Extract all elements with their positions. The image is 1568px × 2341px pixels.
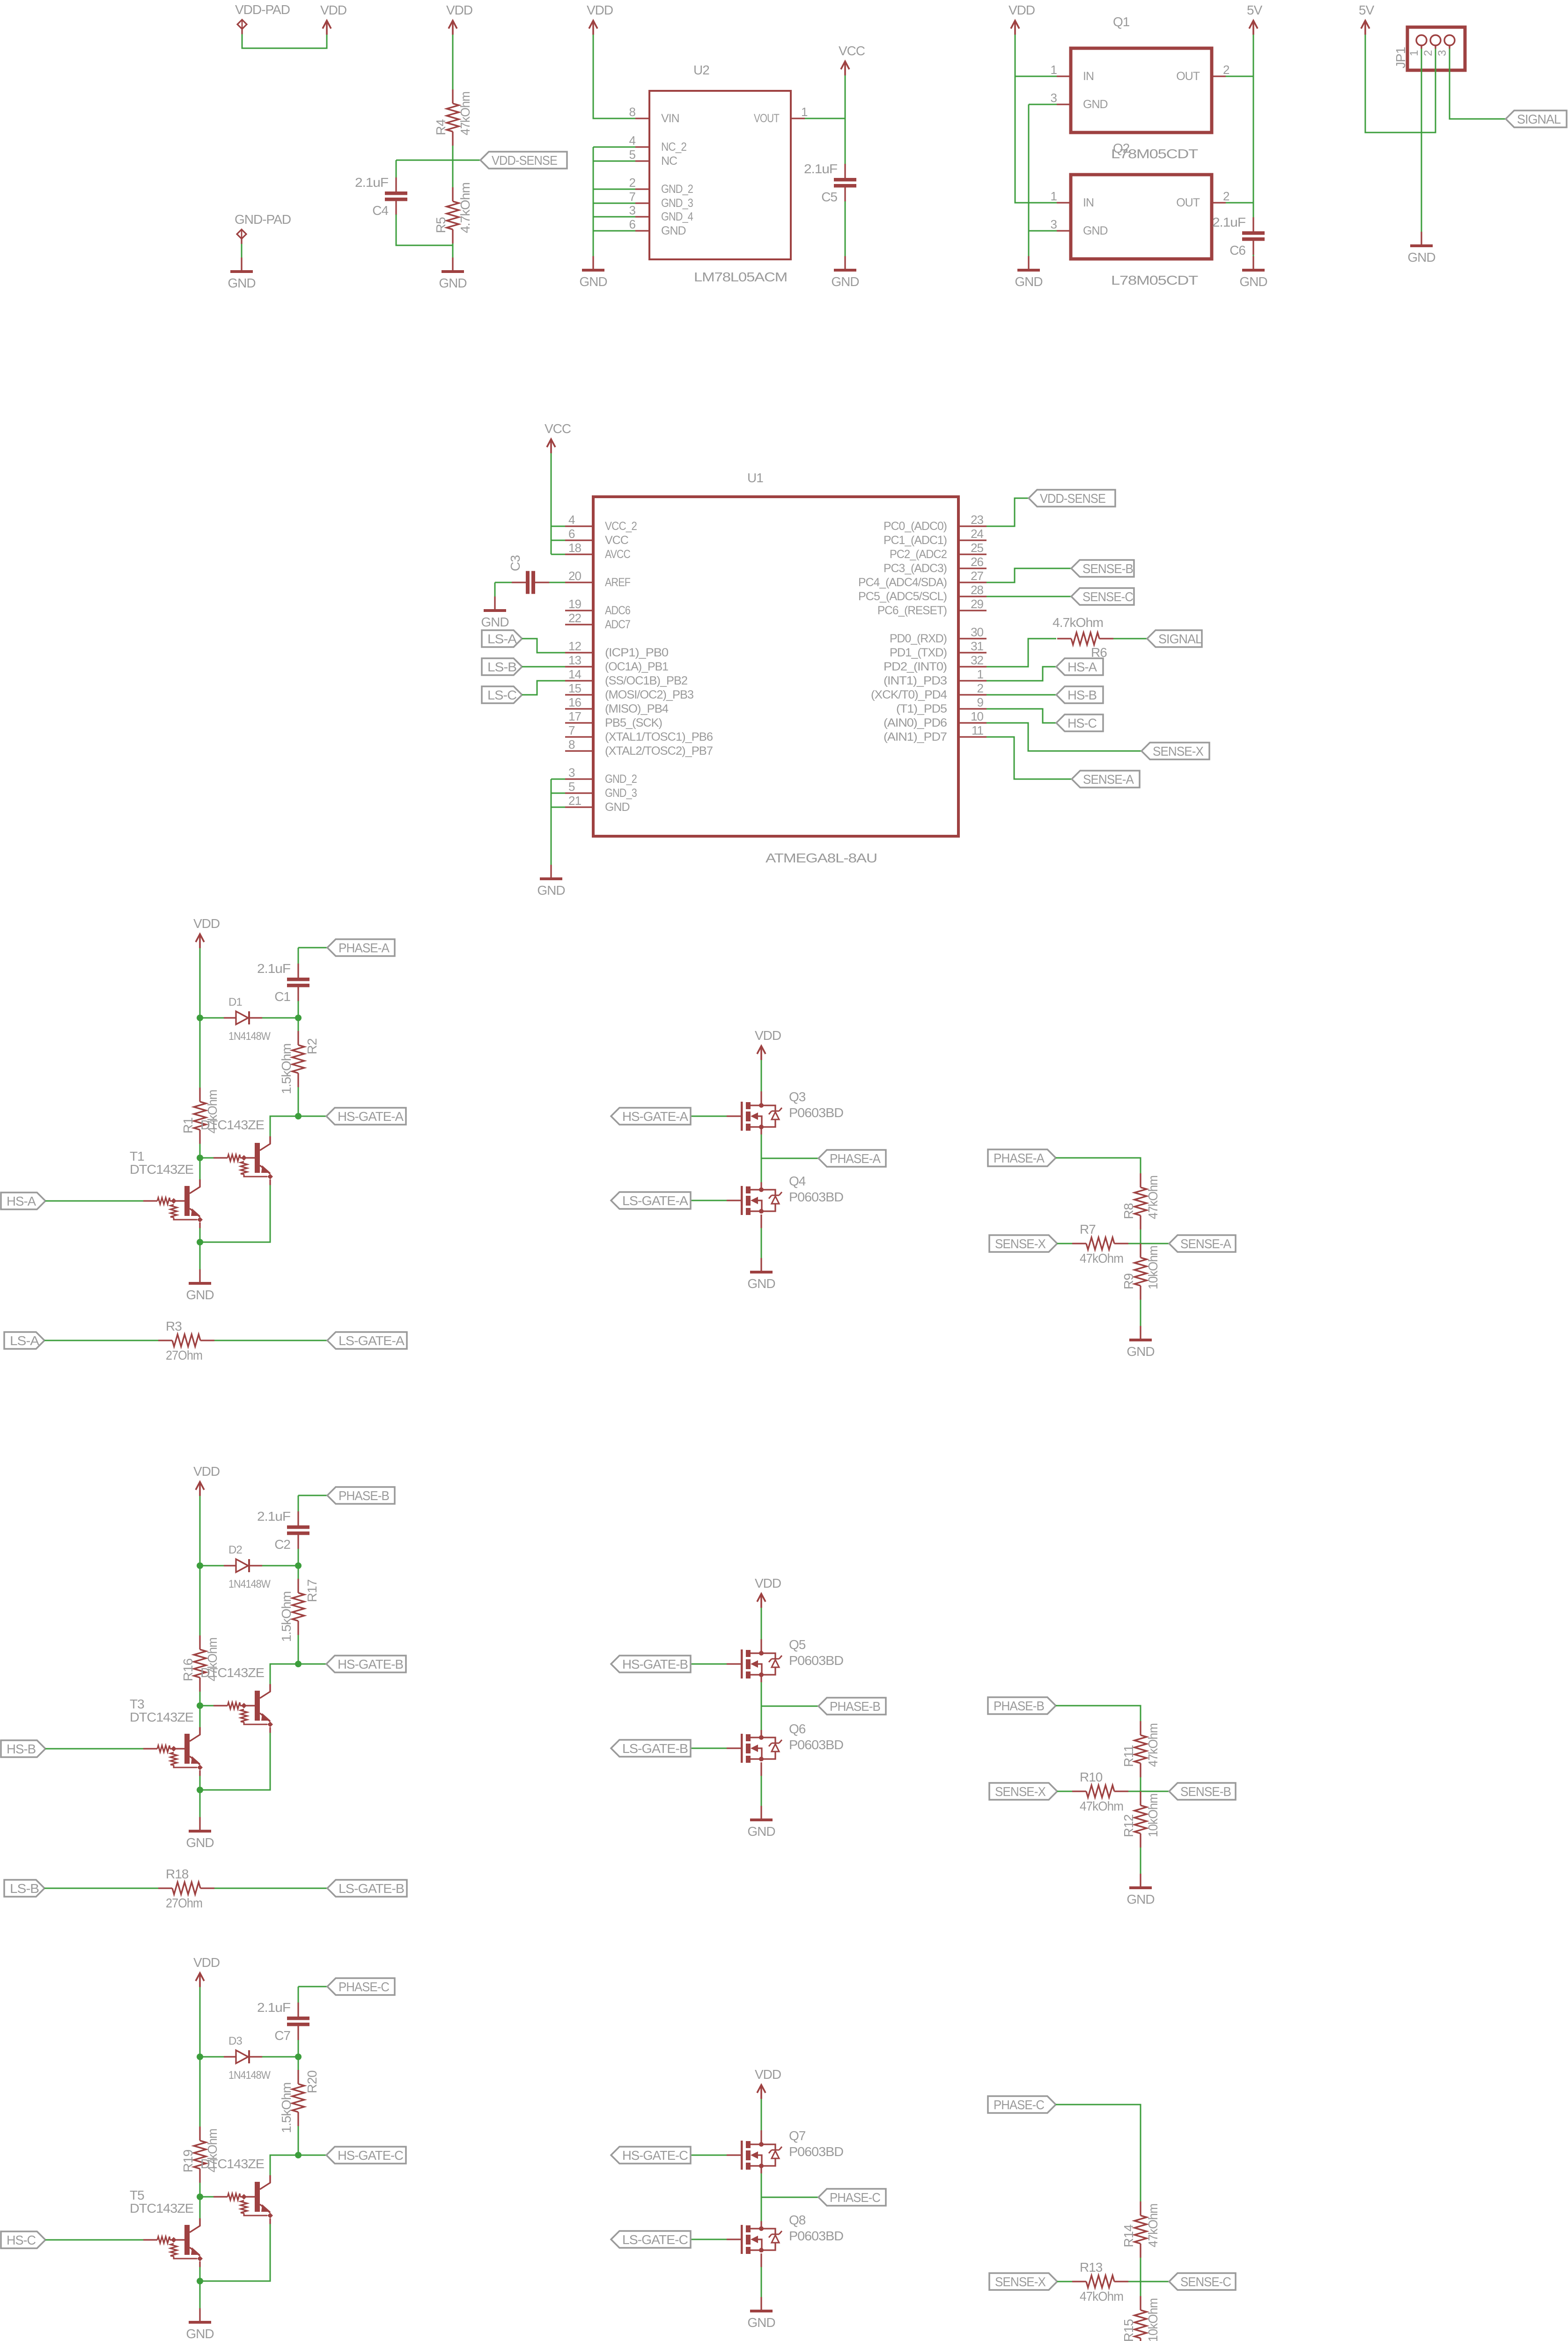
svg-text:47kOhm: 47kOhm (1080, 1799, 1123, 1813)
svg-text:VIN: VIN (661, 112, 679, 125)
wire (691, 1116, 727, 1117)
svg-text:HS-GATE-A: HS-GATE-A (338, 1109, 404, 1124)
wire (761, 1158, 818, 1159)
svg-text:PC6_(RESET): PC6_(RESET) (877, 604, 947, 617)
svg-text:IN: IN (1083, 196, 1094, 209)
svg-text:5V: 5V (1247, 3, 1263, 17)
wire (1128, 1243, 1169, 1244)
svg-text:LS-GATE-A: LS-GATE-A (339, 1333, 405, 1348)
svg-text:PD2_(INT0): PD2_(INT0) (883, 660, 947, 673)
mcu U1 ATMEGA8L-8AU (593, 471, 958, 865)
U1 pin 13 (OC1A)_PB1 (565, 653, 668, 673)
svg-text:4.7kOhm: 4.7kOhm (1053, 615, 1103, 630)
svg-text:P0603BD: P0603BD (789, 1737, 843, 1752)
svg-text:GND_2: GND_2 (661, 183, 693, 196)
net label PHASE-B (818, 1698, 886, 1715)
wire (1253, 255, 1254, 256)
svg-text:1.5kOhm: 1.5kOhm (279, 1044, 294, 1094)
svg-text:1.5kOhm: 1.5kOhm (279, 2083, 294, 2133)
svg-text:1: 1 (801, 105, 808, 119)
junction (295, 2152, 302, 2158)
svg-text:(SS/OC1B)_PB2: (SS/OC1B)_PB2 (605, 674, 687, 687)
svg-text:GND_3: GND_3 (605, 787, 637, 800)
wire (200, 1733, 270, 1790)
U1 pin 1 (INT1)_PD3 (883, 667, 986, 687)
svg-text:GND: GND (661, 224, 686, 237)
svg-text:Q6: Q6 (789, 1722, 806, 1736)
U1 pin 3 GND_2 (565, 766, 637, 786)
wire (691, 1200, 727, 1201)
svg-text:R19: R19 (181, 2150, 195, 2172)
ground (537, 865, 565, 898)
svg-text:ADC6: ADC6 (605, 604, 630, 617)
U1 pin 12 (ICP1)_PB0 (565, 639, 668, 659)
wire (298, 1495, 299, 1511)
net label SENSE-X (1141, 743, 1209, 759)
wire (593, 35, 635, 118)
wire (986, 694, 1056, 696)
mosfet Q5 P0603BD (727, 1637, 843, 1678)
U2 pin 8 VIN (629, 105, 679, 125)
ground (1015, 256, 1042, 289)
transistor T1 DTC143ZE (143, 1179, 203, 1228)
net label VDD-SENSE (480, 152, 567, 169)
wire (298, 1001, 299, 1018)
ground (747, 1806, 775, 1839)
wire (199, 1496, 201, 1566)
wire (298, 1116, 326, 1117)
svg-text:C5: C5 (821, 190, 837, 204)
svg-text:8: 8 (568, 737, 575, 751)
wire (691, 1748, 727, 1749)
svg-text:21: 21 (568, 794, 581, 808)
U1 pin 9 (T1)_PD5 (896, 695, 986, 715)
svg-text:HS-B: HS-B (7, 1742, 36, 1756)
svg-text:4.7kOhm: 4.7kOhm (458, 183, 472, 233)
net label LS-GATE-B (611, 1740, 691, 1757)
wire (242, 34, 327, 48)
svg-text:1.5kOhm: 1.5kOhm (279, 1591, 294, 1642)
svg-text:8: 8 (629, 105, 636, 119)
ground (186, 1269, 213, 1302)
svg-text:R16: R16 (181, 1658, 195, 1681)
wire (269, 1136, 271, 1144)
net label PHASE-A (818, 1150, 886, 1167)
svg-text:HS-A: HS-A (1067, 660, 1097, 674)
wire (199, 1987, 201, 2057)
resistor R17 (279, 1579, 319, 1642)
svg-text:C7: C7 (274, 2028, 290, 2043)
svg-text:PHASE-C: PHASE-C (339, 1980, 390, 1994)
resistor R8 (1121, 1173, 1160, 1229)
svg-text:7: 7 (568, 723, 575, 737)
svg-text:AVCC: AVCC (605, 548, 631, 561)
ground (1126, 1326, 1154, 1359)
wire (199, 2057, 201, 2127)
svg-text:7: 7 (629, 190, 636, 204)
wire (298, 947, 327, 949)
resistor R6 (1053, 615, 1113, 660)
svg-text:R9: R9 (1121, 1274, 1136, 1289)
svg-text:2: 2 (1223, 63, 1229, 77)
wire (1056, 1158, 1141, 1173)
supply VDD (446, 3, 472, 35)
U2 pin 2 GND_2 (629, 176, 693, 196)
svg-text:22: 22 (568, 611, 581, 625)
svg-text:Q8: Q8 (789, 2213, 806, 2227)
resistor R12 (1121, 1791, 1160, 1848)
svg-text:HS-B: HS-B (1067, 688, 1097, 702)
svg-text:32: 32 (971, 653, 983, 667)
wire (199, 1242, 201, 1269)
svg-text:GND: GND (439, 276, 466, 290)
supply VCC (545, 421, 571, 453)
net label HS-C (1, 2231, 45, 2248)
wire (760, 2166, 762, 2173)
svg-text:18: 18 (568, 541, 581, 555)
supply VDD (587, 3, 613, 35)
net label PHASE-C (327, 1978, 395, 1995)
svg-text:VOUT: VOUT (754, 112, 780, 125)
supply 5V (1247, 3, 1263, 35)
svg-text:SENSE-A: SENSE-A (1180, 1237, 1231, 1251)
capacitor C6 (1212, 215, 1265, 258)
svg-text:VDD: VDD (755, 1576, 781, 1590)
resistor R13 (1072, 2260, 1128, 2304)
net label HS-GATE-C (611, 2147, 691, 2164)
wire (1226, 76, 1253, 77)
svg-text:(AIN0)_PD6: (AIN0)_PD6 (883, 716, 947, 729)
wire (761, 1608, 762, 1639)
svg-text:NC_2: NC_2 (661, 140, 686, 154)
Q1 pin 3 GND (1051, 91, 1108, 111)
wire (495, 582, 512, 583)
net label LS-A (482, 630, 522, 647)
wire (691, 2155, 727, 2156)
wire (200, 1157, 213, 1159)
regulator Q1 L78M05CDT (1071, 15, 1212, 161)
svg-text:GND: GND (1083, 98, 1108, 111)
svg-text:2: 2 (1223, 189, 1229, 203)
svg-text:HS-GATE-C: HS-GATE-C (622, 2148, 688, 2163)
capacitor C7 (257, 2000, 309, 2043)
wire (1056, 1706, 1141, 1721)
svg-text:GND: GND (605, 801, 630, 814)
wire (1015, 35, 1057, 203)
net label HS-C (1056, 714, 1103, 731)
wire (1057, 2281, 1072, 2282)
wire (760, 1215, 762, 1228)
wire (214, 1340, 327, 1341)
svg-text:GND: GND (1083, 224, 1108, 237)
svg-text:SENSE-C: SENSE-C (1082, 589, 1134, 604)
wire JP1 pin3 signal (1450, 49, 1506, 119)
wire (298, 1495, 327, 1496)
svg-text:1: 1 (1408, 50, 1421, 56)
svg-text:5V: 5V (1359, 3, 1375, 17)
svg-text:5: 5 (568, 780, 575, 794)
transistor T1 upper DTC143ZE (213, 1136, 273, 1185)
U1 pin 11 (AIN1)_PD7 (883, 723, 986, 744)
svg-text:LM78L05ACM: LM78L05ACM (694, 270, 787, 284)
svg-text:PC4_(ADC4/SDA): PC4_(ADC4/SDA) (858, 576, 947, 589)
junction (197, 1015, 203, 1021)
wire (760, 2130, 762, 2144)
svg-text:C3: C3 (508, 555, 523, 571)
svg-text:31: 31 (971, 639, 983, 653)
Q2 pin 2 OUT (1176, 189, 1229, 209)
svg-text:JP1: JP1 (1393, 47, 1408, 68)
svg-text:47kOhm: 47kOhm (458, 92, 472, 135)
wire (986, 498, 1029, 526)
U1 pin 15 (MOSI/OC2)_PB3 (565, 681, 693, 701)
svg-text:R14: R14 (1121, 2224, 1136, 2247)
svg-text:PC0_(ADC0): PC0_(ADC0) (883, 520, 947, 533)
ground (186, 2308, 213, 2341)
net label SENSE-A (1169, 1235, 1236, 1252)
svg-text:28: 28 (971, 583, 983, 597)
svg-text:47kOhm: 47kOhm (1146, 2204, 1160, 2247)
supply 5V (1359, 3, 1375, 35)
svg-text:LS-GATE-B: LS-GATE-B (622, 1741, 688, 1756)
wire 5V net (1253, 35, 1254, 217)
svg-text:47kOhm: 47kOhm (1080, 1251, 1123, 1266)
diode D1 1N4148W (224, 996, 271, 1043)
wire (199, 1790, 201, 1817)
svg-text:2.1uF: 2.1uF (257, 2000, 290, 2015)
svg-text:T1: T1 (130, 1149, 144, 1163)
wire (845, 201, 846, 256)
pad GND-PAD (235, 212, 291, 239)
svg-text:27Ohm: 27Ohm (166, 1896, 202, 1910)
svg-text:GND: GND (481, 615, 508, 629)
svg-text:R17: R17 (305, 1579, 319, 1602)
svg-text:27Ohm: 27Ohm (166, 1348, 202, 1362)
svg-text:19: 19 (568, 597, 581, 611)
svg-text:C1: C1 (274, 989, 290, 1004)
transistor T3 DTC143ZE (143, 1727, 203, 1776)
supply VDD (193, 1464, 220, 1496)
wire (200, 1017, 225, 1019)
svg-text:LS-B: LS-B (487, 660, 516, 674)
wire (593, 161, 635, 162)
Q1 pin 2 OUT (1176, 63, 1229, 83)
U2 pin 4 NC_2 (629, 133, 687, 154)
svg-text:Q1: Q1 (1113, 15, 1130, 29)
svg-text:PC1_(ADC1): PC1_(ADC1) (883, 534, 947, 547)
svg-text:1N4148W: 1N4148W (228, 2069, 271, 2082)
ground (747, 1258, 775, 1291)
resistor R1 (181, 1088, 220, 1144)
svg-text:SENSE-X: SENSE-X (995, 2275, 1046, 2289)
svg-text:HS-A: HS-A (7, 1194, 36, 1208)
wire (45, 1200, 143, 1202)
wire (1140, 2258, 1141, 2282)
wire (452, 146, 454, 187)
svg-text:VDD: VDD (193, 1955, 220, 1970)
svg-text:1: 1 (1051, 189, 1057, 203)
U1 pin 25 PC2_(ADC2 (890, 541, 986, 561)
svg-text:Q3: Q3 (789, 1090, 806, 1104)
svg-text:T3: T3 (130, 1697, 144, 1711)
supply VDD (755, 1576, 781, 1608)
wire (986, 667, 1056, 681)
svg-text:GND_3: GND_3 (661, 197, 693, 210)
svg-text:D1: D1 (228, 996, 242, 1009)
svg-text:DTC143ZE: DTC143ZE (130, 2201, 193, 2216)
wire (214, 1888, 327, 1889)
wire (760, 1762, 762, 1776)
wire (551, 540, 565, 541)
wire (199, 948, 201, 1018)
svg-text:DTC143ZE: DTC143ZE (130, 1162, 193, 1177)
svg-text:GND: GND (1407, 250, 1435, 265)
svg-text:R20: R20 (305, 2070, 319, 2093)
svg-text:PC5_(ADC5/SCL): PC5_(ADC5/SCL) (858, 590, 947, 603)
svg-text:SENSE-X: SENSE-X (1153, 744, 1204, 758)
svg-text:11: 11 (972, 723, 984, 737)
U1 pin 19 ADC6 (565, 597, 630, 617)
wire (200, 1705, 213, 1707)
wire (199, 1692, 201, 1706)
ground (831, 256, 859, 289)
ground (228, 258, 255, 290)
svg-text:47kOhm: 47kOhm (1146, 1723, 1160, 1767)
wire (760, 1730, 762, 1737)
wire (551, 453, 552, 554)
net label LS-GATE-A (327, 1332, 407, 1349)
svg-text:1N4148W: 1N4148W (228, 1030, 271, 1043)
wire (551, 554, 565, 555)
svg-text:GND: GND (747, 1824, 775, 1839)
wire (761, 1228, 762, 1258)
junction (295, 1562, 302, 1569)
net label SENSE-X (989, 1235, 1057, 1252)
svg-text:P0603BD: P0603BD (789, 2144, 843, 2159)
wire (1029, 230, 1057, 232)
wire (262, 1017, 298, 1019)
junction (295, 1661, 302, 1667)
Q1 pin 1 IN (1051, 63, 1094, 83)
wire JP1 pin1 to gnd (1421, 49, 1422, 232)
svg-text:P0603BD: P0603BD (789, 1105, 843, 1120)
U1 pin 14 (SS/OC1B)_PB2 (565, 667, 687, 687)
diode D2 1N4148W (224, 1544, 271, 1590)
resistor R19 (181, 2127, 220, 2183)
svg-text:4: 4 (568, 513, 575, 527)
wire VDD-SENSE net (396, 160, 480, 161)
svg-text:(XCK/T0)_PD4: (XCK/T0)_PD4 (871, 688, 947, 701)
wire (1015, 76, 1057, 77)
capacitor C1 (257, 961, 309, 1004)
svg-text:R5: R5 (434, 217, 448, 233)
svg-text:2.1uF: 2.1uF (355, 175, 388, 190)
svg-text:VDD: VDD (755, 1028, 781, 1043)
svg-text:PHASE-B: PHASE-B (339, 1488, 389, 1503)
net label HS-B (1, 1740, 45, 1757)
svg-text:20: 20 (568, 569, 581, 583)
wire (44, 1888, 158, 1889)
svg-text:Q5: Q5 (789, 1637, 806, 1652)
svg-text:VDD-PAD: VDD-PAD (235, 2, 290, 17)
regulator U2 LM78L05ACM (649, 63, 791, 284)
svg-text:(ICP1)_PB0: (ICP1)_PB0 (605, 646, 668, 659)
net label SENSE-X (989, 1783, 1057, 1800)
ground (481, 596, 508, 629)
junction (197, 2278, 203, 2284)
svg-text:10kOhm: 10kOhm (1146, 1246, 1160, 1289)
wire (761, 2099, 762, 2130)
wire (199, 1776, 201, 1790)
net label LS-C (482, 686, 522, 703)
U1 pin 29 PC6_(RESET) (877, 597, 986, 617)
svg-text:L78M05CDT: L78M05CDT (1111, 273, 1198, 287)
svg-text:10: 10 (971, 709, 983, 723)
svg-text:DTC143ZE: DTC143ZE (130, 1710, 193, 1724)
svg-text:HS-GATE-B: HS-GATE-B (338, 1657, 403, 1671)
wire (199, 1706, 201, 1727)
net label HS-GATE-B (326, 1656, 406, 1672)
wire (270, 1116, 298, 1136)
U2 pin 3 GND_4 (629, 203, 693, 223)
supply VDD (193, 916, 220, 948)
wire (1140, 2282, 1141, 2296)
mosfet Q8 P0603BD (727, 2213, 843, 2254)
wire (298, 1566, 299, 1579)
wire (522, 681, 565, 695)
net label VDD-SENSE (1029, 490, 1115, 507)
svg-text:(OC1A)_PB1: (OC1A)_PB1 (605, 660, 668, 673)
wire (298, 2040, 299, 2057)
supply VDD (193, 1955, 220, 1987)
svg-text:PC3_(ADC3): PC3_(ADC3) (883, 562, 947, 575)
capacitor C5 (804, 162, 856, 204)
wire (200, 1565, 225, 1567)
wire (522, 639, 565, 653)
wire (593, 147, 594, 256)
svg-text:2.1uF: 2.1uF (1212, 215, 1245, 229)
resistor R11 (1121, 1721, 1160, 1777)
U1 pin 26 PC3_(ADC3) (883, 555, 986, 575)
wire (1057, 1791, 1072, 1792)
wire (1140, 1791, 1141, 1792)
wire (298, 2155, 326, 2156)
U1 pin 24 PC1_(ADC1) (883, 527, 986, 547)
svg-text:VDD: VDD (446, 3, 472, 17)
svg-text:P0603BD: P0603BD (789, 1653, 843, 1668)
wire (1140, 1848, 1141, 1874)
svg-text:14: 14 (568, 667, 581, 681)
supply VCC (839, 44, 865, 75)
svg-text:SIGNAL: SIGNAL (1517, 112, 1561, 126)
wire (1056, 2105, 1141, 2201)
supply VDD (755, 1028, 781, 1060)
wire (396, 214, 453, 245)
svg-text:4: 4 (629, 133, 636, 147)
svg-text:HS-C: HS-C (1067, 716, 1097, 730)
wire (760, 2221, 762, 2229)
svg-text:(AIN1)_PD7: (AIN1)_PD7 (883, 730, 947, 744)
mosfet Q3 P0603BD (727, 1090, 843, 1131)
wire (241, 239, 242, 244)
resistor R7 (1072, 1222, 1128, 1266)
svg-text:1N4148W: 1N4148W (228, 1578, 271, 1590)
svg-text:ATMEGA8L-8AU: ATMEGA8L-8AU (766, 851, 877, 865)
net label PHASE-C (818, 2189, 886, 2206)
wire phase node (761, 1682, 762, 1730)
wire (1028, 104, 1030, 256)
U1 pin 30 PD0_(RXD) (890, 625, 986, 645)
